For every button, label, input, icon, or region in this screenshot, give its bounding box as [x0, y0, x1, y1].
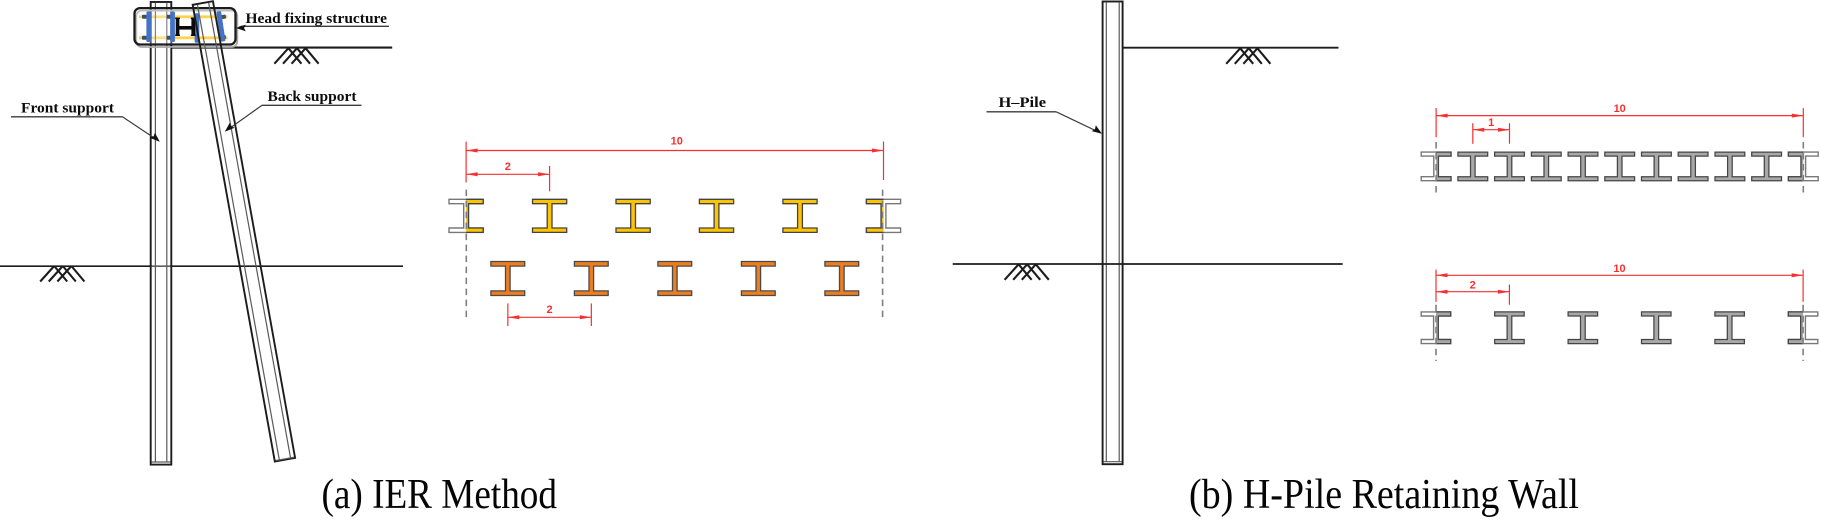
H-pile plan yellow row: pile 3	[616, 199, 650, 232]
H-pile plan orange row: pile 1	[491, 262, 525, 296]
svg-text:Head fixing structure: Head fixing structure	[246, 11, 388, 27]
H-pile plan yellow row: boundary pile 1 (half white/half yellow)	[449, 199, 483, 232]
dimension line 2 (a plan bottom, orange row)	[508, 303, 591, 326]
boundary dashed line right (b plan top)	[1802, 142, 1804, 196]
excavation level line (b)	[953, 263, 1343, 265]
H-pile plan yellow row: pile 5	[783, 199, 817, 232]
nut plate middle bottom	[167, 36, 171, 40]
boundary dashed line left (a plan)	[465, 190, 467, 318]
leader arrow to back support	[228, 105, 262, 129]
boundary dashed line right (a plan)	[882, 190, 884, 318]
H-pile plan gray row2: pile 5	[1715, 312, 1745, 344]
clamp bar 2 (blue, right of front pile)	[170, 12, 175, 43]
ground surface line (a)	[171, 47, 393, 49]
H-pile plan gray row1: pile 6	[1605, 152, 1635, 181]
svg-text:1: 1	[1488, 117, 1494, 129]
excavation level line (a)	[0, 265, 403, 267]
svg-text:10: 10	[1614, 103, 1626, 115]
dimension line 10 (b plan bottom)	[1436, 270, 1803, 302]
H-pile plan orange row: pile 3	[658, 262, 692, 296]
clamp bar 3 (blue, left of back pile)	[195, 13, 200, 43]
back support pile (tilted)	[193, 1, 295, 461]
dimension line 2 (b plan bottom)	[1436, 285, 1509, 305]
svg-text:2: 2	[547, 304, 553, 316]
H-pile plan yellow row: pile 2	[533, 199, 567, 232]
H-pile plan gray row1: pile 3	[1495, 152, 1525, 181]
H-pile plan gray row2: pile 4	[1642, 312, 1672, 344]
head fixing structure border	[135, 8, 236, 44]
svg-text:Back support: Back support	[268, 89, 357, 105]
H-pile plan gray row2: boundary pile 6 (half white)	[1788, 312, 1818, 344]
ground hatch symbol (a) excavation side	[40, 266, 84, 282]
H-pile plan gray row1: pile 7	[1642, 152, 1672, 181]
H-pile plan orange row: pile 5	[825, 262, 859, 296]
dimension line 2 (a plan top)	[466, 166, 549, 191]
clamp bar 1 (blue, left of front pile)	[146, 12, 151, 43]
label underline: H-Pile	[987, 111, 1057, 113]
ground hatch symbol (a) top	[274, 48, 318, 64]
nut plate right bottom	[221, 35, 227, 40]
leader arrow to H-pile	[1056, 112, 1098, 132]
boundary dashed line left (b plan bottom)	[1435, 305, 1437, 361]
label underline: Back support	[262, 104, 362, 106]
H-pile plan orange row: pile 4	[741, 262, 775, 296]
label underline: Head fixing structure	[241, 25, 389, 27]
yellow tie rod (top) of head fixing structure	[139, 15, 228, 18]
svg-text:10: 10	[1613, 263, 1625, 275]
ground hatch symbol (b) excavation side	[1005, 264, 1049, 280]
H-pile plan yellow row: pile 4	[699, 199, 733, 232]
svg-text:10: 10	[671, 135, 683, 147]
ground surface line (b)	[1123, 47, 1339, 49]
H-pile plan gray row1: pile 8	[1678, 152, 1708, 181]
H-pile plan gray row1: pile 9	[1715, 152, 1745, 181]
H-beam wale (black H)	[175, 18, 196, 36]
svg-text:H–Pile: H–Pile	[999, 95, 1047, 111]
H-pile plan gray row2: pile 3	[1568, 312, 1598, 344]
H-pile plan gray row1: boundary pile 11 (half white)	[1788, 152, 1818, 181]
svg-text:2: 2	[1470, 279, 1476, 291]
H-pile plan yellow row: boundary pile 6 (half yellow/half white)	[866, 199, 900, 232]
H-pile plan orange row: pile 2	[574, 262, 608, 296]
head fixing structure shadow border	[136, 11, 237, 47]
H-pile plan gray row2: pile 2	[1495, 312, 1525, 344]
nut plate left bottom	[142, 36, 147, 40]
H-pile plan gray row1: pile 2	[1458, 152, 1488, 181]
dimension line 10 (b plan top)	[1436, 108, 1803, 137]
H-pile plan gray row1: pile 10	[1752, 152, 1782, 181]
H-pile plan gray row1: pile 5	[1568, 152, 1598, 181]
boundary dashed line left (b plan top)	[1435, 142, 1437, 196]
dimension line 1 (b plan top)	[1473, 123, 1510, 144]
nut plate right top	[221, 15, 227, 20]
dimension line 10 (a plan)	[466, 142, 883, 183]
H-pile plan gray row1: boundary pile 1 (half white)	[1421, 152, 1451, 181]
svg-text:2: 2	[505, 161, 511, 173]
label underline: Front support	[11, 116, 123, 118]
H-pile elevation (b)	[1103, 2, 1123, 465]
H-pile plan gray row1: pile 4	[1531, 152, 1561, 181]
ground hatch symbol (b) top	[1226, 48, 1270, 64]
yellow tie rod (bottom) of head fixing structure	[139, 36, 228, 39]
clamp bar 4 (blue, right of back pile)	[216, 11, 225, 42]
H-pile plan gray row2: boundary pile 1 (half white)	[1421, 312, 1451, 344]
svg-text:Front support: Front support	[21, 100, 114, 116]
leader arrow to front support	[123, 117, 157, 140]
leader arrow to head fixing structure	[239, 26, 241, 27]
svg-text:(b) H-Pile Retaining Wall: (b) H-Pile Retaining Wall	[1189, 472, 1579, 518]
nut plate left top	[142, 15, 147, 19]
svg-text:(a) IER Method: (a) IER Method	[322, 472, 558, 518]
front support pile	[151, 2, 172, 465]
boundary dashed line right (b plan bottom)	[1802, 305, 1804, 361]
nut plate middle top	[167, 15, 171, 19]
